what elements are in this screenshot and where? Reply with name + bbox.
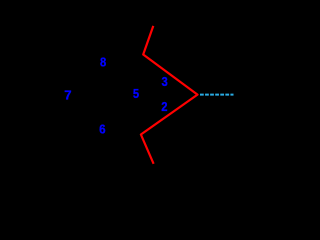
atom label 8 bbox=[100, 54, 106, 69]
svg-text:6: 6 bbox=[99, 122, 106, 137]
skeleton bonds (black, invisible on black background) bbox=[68, 62, 142, 129]
svg-text:2: 2 bbox=[161, 99, 167, 114]
svg-text:7: 7 bbox=[64, 87, 71, 102]
svg-text:5: 5 bbox=[133, 86, 139, 101]
svg-text:8: 8 bbox=[100, 54, 106, 69]
atom label 6 bbox=[99, 122, 106, 137]
atom label 7 bbox=[64, 87, 71, 102]
atom label 3 bbox=[161, 74, 167, 89]
attachment bond (cyan dashed line) bbox=[200, 94, 234, 96]
highlighted bonds (red zigzag polyline) bbox=[141, 26, 198, 164]
atom label 5 bbox=[133, 86, 139, 101]
atom label 2 bbox=[161, 99, 167, 114]
svg-text:3: 3 bbox=[161, 74, 167, 89]
